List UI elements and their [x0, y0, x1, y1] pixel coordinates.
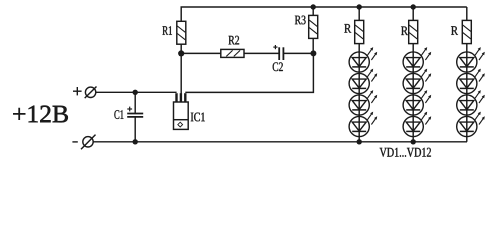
junction column 1 top — [357, 4, 362, 9]
wire node A to R2 — [181, 52, 221, 54]
LED VD5 — [403, 47, 431, 72]
wire top rail with R1 riser — [181, 7, 467, 53]
junction C1 bottom — [133, 139, 138, 144]
junction column 2 top — [411, 4, 416, 9]
LED VD1 — [349, 47, 377, 72]
wire +12V rail to IC1 left pin — [96, 91, 177, 93]
label +12В — [13, 106, 68, 123]
label R1 — [163, 26, 173, 35]
junction column 1 bottom — [357, 139, 362, 144]
wire IC1 right pin to node B — [185, 53, 313, 92]
capacitor C1 — [127, 107, 143, 117]
LED VD9 — [457, 47, 485, 72]
label IC1 — [191, 113, 205, 122]
wire R2 to C2 — [244, 52, 279, 54]
LED VD2 — [349, 69, 377, 94]
LED VD6 — [403, 69, 431, 94]
wire bottom rail — [93, 141, 467, 143]
label R column 2 — [401, 27, 408, 36]
label VD1...VD12 — [380, 148, 431, 157]
wire R3 top lead — [312, 7, 314, 15]
minus input terminal — [72, 135, 95, 150]
LED VD11 — [457, 90, 485, 115]
resistor R column 1 — [355, 20, 364, 43]
wire C2 to node B — [283, 52, 313, 54]
LED VD10 — [457, 69, 485, 94]
wire node A down to IC1 middle pin — [180, 53, 182, 102]
junction column 2 bottom — [411, 139, 416, 144]
label R column 1 — [344, 24, 351, 32]
junction R3 top — [311, 4, 316, 9]
IC chip IC1 — [174, 93, 189, 129]
label R2 — [229, 36, 240, 45]
junction C1 top — [133, 90, 138, 95]
node A junction dot — [178, 50, 184, 56]
LED VD12 — [457, 112, 485, 137]
label R3 — [295, 16, 306, 25]
LED VD7 — [403, 90, 431, 115]
LED VD4 — [349, 112, 377, 137]
wire column 1 — [358, 7, 360, 142]
resistor R column 2 — [409, 20, 418, 43]
wire column 3 — [466, 7, 468, 142]
wire C1 bottom lead — [134, 117, 136, 142]
resistor R3 — [309, 15, 318, 38]
capacitor C2 — [273, 45, 283, 60]
wire column 2 — [412, 7, 414, 142]
plus input terminal — [73, 87, 97, 99]
wire R3 bottom lead — [312, 38, 314, 53]
label C2 — [273, 62, 283, 71]
resistor R2 — [221, 49, 244, 57]
label C1 — [114, 110, 123, 119]
LED VD8 — [403, 112, 431, 137]
label R column 3 — [451, 26, 458, 35]
resistor R1 — [177, 21, 186, 44]
node B junction dot — [310, 50, 316, 56]
LED VD3 — [349, 90, 377, 115]
wire C1 top lead — [134, 92, 136, 113]
resistor R column 3 — [462, 20, 471, 43]
